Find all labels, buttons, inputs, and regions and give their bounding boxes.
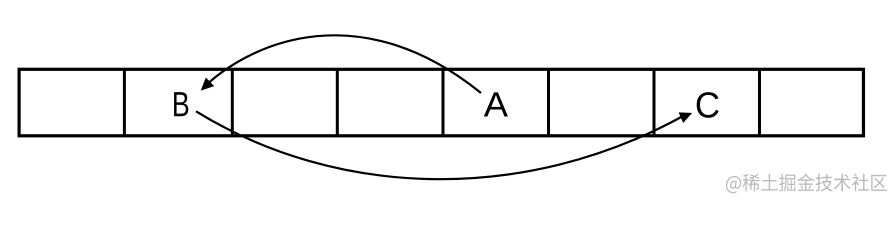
arrowhead at C (679, 113, 691, 122)
arrowhead at B (202, 78, 214, 89)
cell divider 7 (758, 69, 761, 136)
label C (697, 92, 719, 118)
label A (484, 92, 508, 116)
arrow arc from B to C (196, 111, 684, 179)
cell divider 3 (336, 69, 339, 136)
arrow arc from A to B (205, 35, 482, 93)
cell divider 1 (123, 69, 126, 136)
array outline (19, 69, 863, 136)
watermark @稀土掘金技术社区 (726, 174, 887, 194)
cell divider 2 (231, 69, 234, 136)
cell divider 5 (547, 69, 550, 136)
label B (174, 92, 188, 116)
cell divider 6 (653, 69, 656, 136)
cell divider 4 (442, 69, 445, 136)
